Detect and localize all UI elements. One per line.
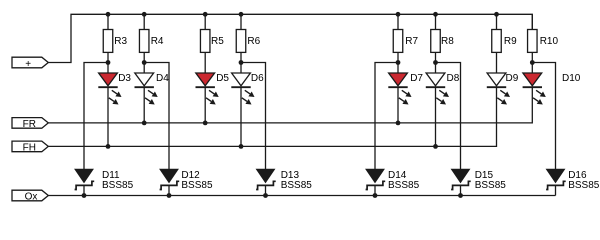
svg-text:R7: R7 <box>405 36 418 47</box>
svg-text:FH: FH <box>23 142 36 153</box>
svg-text:BSS85: BSS85 <box>181 180 213 191</box>
svg-text:Ox: Ox <box>25 192 38 203</box>
svg-text:R6: R6 <box>247 36 260 47</box>
svg-text:D6: D6 <box>251 73 264 84</box>
svg-text:D4: D4 <box>156 73 169 84</box>
svg-text:R3: R3 <box>114 36 127 47</box>
svg-text:BSS85: BSS85 <box>281 180 313 191</box>
svg-text:BSS85: BSS85 <box>388 180 420 191</box>
svg-text:D10: D10 <box>562 73 581 84</box>
svg-text:D9: D9 <box>506 73 519 84</box>
svg-text:BSS85: BSS85 <box>475 180 507 191</box>
svg-text:R10: R10 <box>540 36 559 47</box>
svg-text:D8: D8 <box>447 73 460 84</box>
svg-text:R8: R8 <box>441 36 454 47</box>
svg-text:D3: D3 <box>118 73 131 84</box>
svg-text:FR: FR <box>23 119 36 130</box>
svg-text:R5: R5 <box>211 36 224 47</box>
svg-text:R4: R4 <box>151 36 164 47</box>
svg-text:D5: D5 <box>216 73 229 84</box>
svg-text:R9: R9 <box>504 36 517 47</box>
svg-text:BSS85: BSS85 <box>568 180 600 191</box>
svg-text:BSS85: BSS85 <box>102 180 134 191</box>
svg-text:D7: D7 <box>410 73 423 84</box>
svg-text:+: + <box>25 59 31 70</box>
